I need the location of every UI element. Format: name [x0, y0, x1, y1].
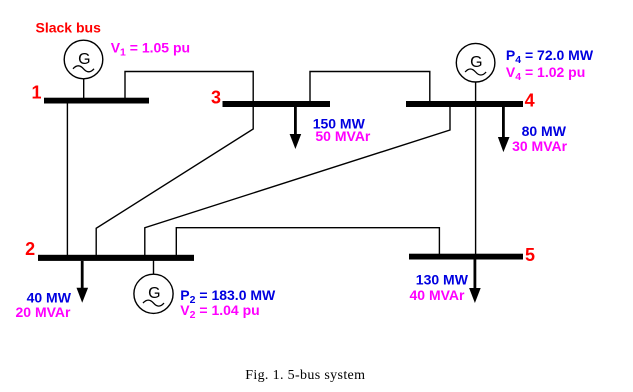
svg-text:3: 3 [211, 87, 221, 107]
bus 5 [409, 254, 523, 260]
wire gen G1 lead to bus 1 [83, 79, 85, 99]
bus 1 [44, 98, 149, 104]
svg-text:80 MW: 80 MW [522, 123, 567, 139]
wire line 1-2 [66, 102, 68, 256]
generator G1 (slack) [64, 40, 103, 79]
svg-text:20 MVAr: 20 MVAr [16, 304, 72, 320]
svg-text:V4 = 1.02 pu: V4 = 1.02 pu [506, 64, 585, 83]
wire gen G4 lead to bus 4 [475, 82, 477, 102]
svg-text:Fig. 1. 5-bus system: Fig. 1. 5-bus system [245, 368, 365, 383]
load arrow at bus 2 (40 MW) [77, 261, 89, 303]
load arrow at bus 3 (150 MW) [290, 107, 302, 149]
bus 3 [223, 101, 331, 107]
svg-text:G: G [470, 54, 482, 71]
svg-text:4: 4 [525, 91, 535, 111]
wire gen G2 lead to bus 2 [153, 260, 155, 275]
wire line 1-3 [125, 72, 253, 103]
svg-text:40 MVAr: 40 MVAr [410, 287, 466, 303]
wire line 4-5 [475, 106, 477, 255]
svg-text:30 MVAr: 30 MVAr [512, 138, 568, 154]
wire line 2-3 [96, 106, 253, 256]
wire line 2-5 [176, 228, 439, 256]
wire line 2-4 [145, 106, 450, 256]
svg-text:Slack bus: Slack bus [36, 20, 102, 36]
svg-text:G: G [78, 51, 90, 68]
svg-text:1: 1 [31, 83, 41, 103]
bus 2 [38, 255, 194, 261]
svg-text:2: 2 [25, 239, 35, 259]
svg-text:V1 = 1.05 pu: V1 = 1.05 pu [111, 40, 190, 59]
load arrow at bus 5 (130 MW) [469, 260, 481, 304]
svg-text:5: 5 [525, 245, 535, 265]
wire line 3-4 [310, 72, 430, 103]
generator G4 [456, 43, 495, 82]
bus 4 [406, 101, 523, 107]
generator G2 [134, 274, 173, 313]
load arrow at bus 4 (80 MW) [498, 107, 510, 152]
svg-text:G: G [148, 285, 160, 302]
svg-text:50 MVAr: 50 MVAr [315, 128, 371, 144]
svg-text:130 MW: 130 MW [416, 272, 469, 288]
